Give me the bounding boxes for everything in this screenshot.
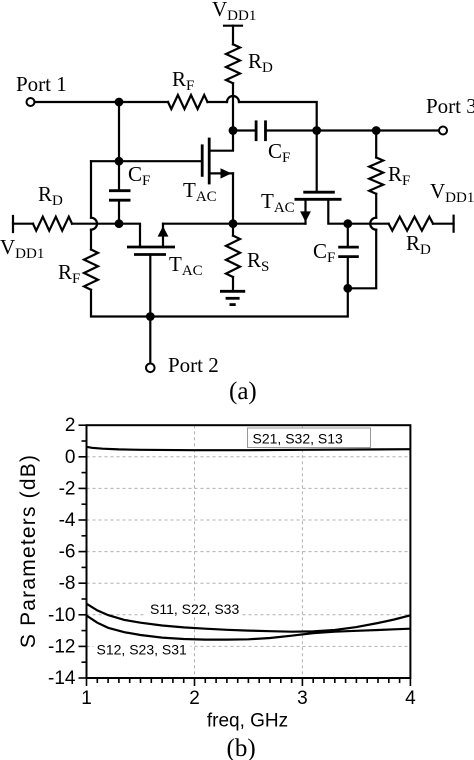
- ground: [220, 291, 245, 304]
- svg-text:Port 2: Port 2: [168, 353, 219, 377]
- port terminal P3: [439, 127, 447, 135]
- wire node H down to Port 2: [149, 317, 151, 364]
- y axis title S Parameters (dB): [17, 454, 40, 648]
- wire node P1a to RF: [119, 101, 168, 103]
- svg-text:(a): (a): [229, 378, 257, 405]
- svg-text:freq, GHz: freq, GHz: [207, 711, 288, 732]
- svg-text:S21, S32, S13: S21, S32, S13: [253, 431, 344, 447]
- svg-text:(b): (b): [227, 735, 256, 760]
- wire node B to CF top: [233, 129, 256, 131]
- Port 3 label: [426, 94, 474, 118]
- wire node C to node D: [317, 129, 377, 131]
- wire node F down to CF left: [118, 161, 120, 191]
- junction node F: [115, 157, 124, 166]
- svg-text:-4: -4: [59, 510, 76, 531]
- chart x tick labels: [81, 688, 416, 709]
- chart y tick labels: [48, 415, 76, 689]
- svg-text:-14: -14: [48, 668, 76, 689]
- wire source T1 down to node E: [232, 173, 234, 223]
- svg-text:3: 3: [297, 688, 308, 709]
- wire hop RF right over mid bus: [348, 218, 376, 289]
- wire RF to hop at node A: [208, 96, 240, 102]
- resistor RF (left): [58, 250, 98, 290]
- junction node G: [115, 219, 124, 228]
- wire gate T1 to node F: [119, 160, 202, 162]
- net VDD1 (top) label: [212, 0, 256, 24]
- svg-text:1: 1: [81, 688, 92, 709]
- wire node G to drain T2: [119, 224, 140, 247]
- x axis title freq, GHz: [207, 711, 288, 732]
- wire RD left to node G: [72, 223, 119, 225]
- power terminal VDD1 right: [453, 216, 455, 232]
- label S11,S22,S33: [146, 601, 242, 618]
- svg-text:S Parameters (dB): S Parameters (dB): [17, 454, 40, 648]
- wire RF left to bottom bus: [91, 290, 150, 317]
- capacitor CF (bottom right): [313, 224, 359, 289]
- svg-text:-12: -12: [48, 636, 75, 657]
- junction node D (RF right top): [372, 126, 381, 135]
- svg-text:Port 1: Port 1: [16, 72, 67, 96]
- wire RD bottom through node A to node B: [232, 83, 234, 130]
- resistor RF (top): [168, 67, 208, 109]
- caption (b): [227, 735, 256, 760]
- wire source T2 to node E: [163, 223, 233, 225]
- resistor RD (top): [226, 44, 273, 83]
- wire source T3 to node E: [233, 223, 306, 225]
- wire VDD1 bar to RD top: [232, 26, 234, 45]
- resistor RD (right): [389, 217, 433, 258]
- curve S12,S23,S31: [87, 616, 411, 640]
- transistor Q2 TAC (bottom left): [127, 224, 203, 279]
- transistor Q1 TAC (top middle): [183, 138, 233, 205]
- wire gate T2 down to bottom bus: [149, 255, 151, 317]
- svg-text:0: 0: [65, 447, 76, 468]
- svg-text:2: 2: [65, 415, 76, 436]
- curve S11,S22,S33: [87, 604, 411, 632]
- wire node B down to drain T1: [209, 131, 233, 151]
- power terminal VDD1 top: [224, 25, 242, 27]
- wire node I to RD right: [348, 223, 389, 225]
- wire CF left bottom to node G: [118, 200, 120, 224]
- junction node B (drain T1): [229, 126, 238, 135]
- port terminal P2: [146, 364, 155, 373]
- port terminal P1: [27, 98, 35, 106]
- junction node E (RS top): [229, 219, 238, 228]
- svg-text:S11, S22, S33: S11, S22, S33: [150, 601, 239, 617]
- junction node J (CF right bottom): [343, 284, 352, 293]
- svg-text:2: 2: [189, 688, 200, 709]
- wire node D to Port 3: [376, 129, 439, 131]
- caption (a): [229, 378, 257, 405]
- wire drain T3 to node I: [328, 199, 348, 223]
- power terminal VDD1 left: [12, 216, 14, 232]
- junction node H (port2): [146, 312, 155, 321]
- wire node F left to left column: [91, 160, 119, 162]
- chart gridlines: [87, 425, 411, 678]
- junction node I (CF right top): [343, 219, 352, 228]
- label S12,S23,S31: [94, 642, 191, 662]
- chart ticks: [79, 425, 411, 686]
- wire node C down to gate T3: [316, 131, 318, 193]
- wire hop left column over mid bus: [91, 161, 97, 249]
- curve S21,S32,S13: [87, 447, 411, 450]
- capacitor CF (top): [256, 120, 290, 166]
- Port 1 label: [16, 72, 67, 96]
- svg-text:-8: -8: [59, 573, 76, 594]
- wire VDD1 left to RD: [13, 223, 33, 225]
- svg-text:4: 4: [405, 688, 416, 709]
- junction node C (gate T3): [312, 126, 321, 135]
- wire RD right to VDD1 terminal: [433, 223, 454, 225]
- Port 2 label: [168, 353, 219, 377]
- wire node P1a down to node F: [118, 102, 120, 161]
- wire node J down to bottom bus: [150, 288, 347, 316]
- svg-text:-2: -2: [59, 478, 76, 499]
- chart axes box: [87, 425, 411, 678]
- svg-text:-10: -10: [48, 605, 75, 626]
- wire CF to node C: [266, 129, 317, 131]
- resistor RS: [226, 224, 269, 292]
- net VDD1 (right) label: [430, 179, 474, 206]
- svg-text:-6: -6: [59, 542, 76, 563]
- transistor Q3 TAC (middle right): [261, 189, 342, 224]
- net VDD1 (left) label: [0, 235, 44, 262]
- label S21,S32,S13: [248, 428, 371, 448]
- capacitor CF (left): [109, 162, 150, 200]
- resistor RF (right): [369, 131, 410, 218]
- resistor RD (left): [33, 182, 72, 231]
- junction node P1a: [115, 98, 124, 107]
- svg-text:S12, S23, S31: S12, S23, S31: [97, 642, 188, 658]
- wire port1 to node P1a: [35, 101, 120, 103]
- wire node A to right corner: [239, 102, 317, 131]
- svg-text:Port 3: Port 3: [426, 94, 474, 118]
